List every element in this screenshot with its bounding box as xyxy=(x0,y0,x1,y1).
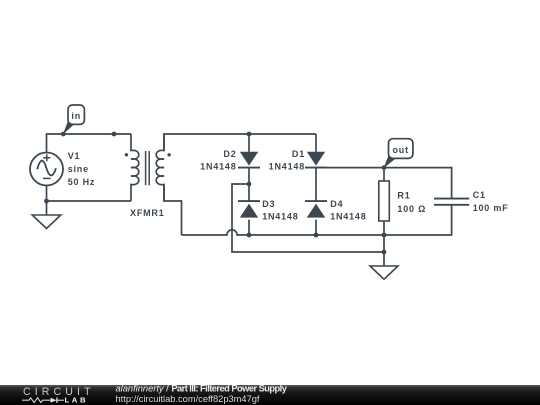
V1 sine glyph xyxy=(37,161,56,176)
wire output rail to C1 xyxy=(316,168,452,199)
wire XFMR1 secondary bottom jog xyxy=(164,185,182,236)
flag "in" pointer xyxy=(63,122,74,135)
diode D2 xyxy=(240,152,258,166)
transformer phase dot primary xyxy=(125,153,128,156)
wire D4 bottom lead xyxy=(315,220,317,235)
capacitor C1 plates xyxy=(434,199,469,205)
svg-text:D3: D3 xyxy=(262,199,275,209)
wire R1 bottom lead xyxy=(383,221,385,235)
label D3 xyxy=(262,199,298,222)
svg-text:XFMR1: XFMR1 xyxy=(130,208,165,218)
node dot: V1 bottom / ground xyxy=(44,199,49,204)
wire V1 bottom to ground xyxy=(46,186,48,216)
wire top rail XFMR1 secondary to D1 xyxy=(164,134,316,151)
voltage source V1 body xyxy=(30,153,63,186)
svg-text:sine: sine xyxy=(68,164,89,174)
svg-text:in: in xyxy=(71,111,81,121)
resistor R1 body xyxy=(379,181,390,221)
label D1 xyxy=(269,149,305,172)
transformer XFMR1 primary winding xyxy=(131,134,139,201)
diode D1 xyxy=(307,152,325,166)
svg-text:out: out xyxy=(392,145,408,155)
wire top-left from V1 to XFMR1 primary xyxy=(47,134,132,153)
wire D1 top lead xyxy=(315,134,317,152)
node dot: R1 bottom rail xyxy=(382,233,387,238)
label D2 xyxy=(200,149,236,172)
flag "out" box xyxy=(389,139,413,159)
node dot: in flag tap xyxy=(61,132,66,137)
node dot: D3 bottom rail xyxy=(247,233,252,238)
wire D2/D3 junction to lower return xyxy=(232,184,384,252)
svg-text:R1: R1 xyxy=(397,190,410,200)
transformer XFMR1 secondary winding xyxy=(156,134,164,201)
svg-text:http://circuitlab.com/ceff82p3: http://circuitlab.com/ceff82p3m47gf xyxy=(116,394,260,404)
svg-text:1N4148: 1N4148 xyxy=(262,212,298,222)
label D4 xyxy=(330,199,366,222)
logo diode symbol xyxy=(51,398,57,403)
svg-text:50 Hz: 50 Hz xyxy=(68,177,96,187)
svg-text:D4: D4 xyxy=(330,199,343,209)
svg-text:LAB: LAB xyxy=(65,395,89,404)
label C1 xyxy=(473,190,509,213)
label R1 xyxy=(397,190,426,214)
svg-text:D2: D2 xyxy=(223,149,236,159)
transformer phase dot secondary xyxy=(167,153,170,156)
svg-text:C1: C1 xyxy=(473,190,486,200)
logo resistor zigzag xyxy=(22,398,51,403)
label V1 xyxy=(68,151,96,187)
node dot: D2 top tap xyxy=(247,132,252,137)
wire bottom rail with hop over crossing xyxy=(182,205,452,235)
svg-text:1N4148: 1N4148 xyxy=(269,162,305,172)
node dot: top wire joint xyxy=(112,132,117,137)
svg-text:D1: D1 xyxy=(292,149,305,159)
node dot: out tap xyxy=(382,165,387,170)
node dot: D4 bottom rail xyxy=(314,233,319,238)
wire D3 bottom lead xyxy=(248,220,250,235)
svg-text:alanfinnerty / Part III: Filte: alanfinnerty / Part III: Filtered Power … xyxy=(116,385,288,394)
flag "out" pointer xyxy=(384,156,396,169)
svg-text:100 mF: 100 mF xyxy=(473,203,509,213)
svg-text:1N4148: 1N4148 xyxy=(330,212,366,222)
diode D4 xyxy=(307,204,325,218)
wire R1 bottom to right ground xyxy=(383,235,385,266)
svg-text:1N4148: 1N4148 xyxy=(200,162,236,172)
V1 minus sign xyxy=(43,177,51,179)
transformer core xyxy=(146,151,150,185)
wire D1 cathode to D4 cathode xyxy=(315,168,317,202)
V1 plus sign xyxy=(43,154,50,161)
wire bottom-left V1 to XFMR1 primary bottom xyxy=(47,200,132,202)
svg-text:100 Ω: 100 Ω xyxy=(397,204,426,214)
node dot: D2/D3 junction xyxy=(247,182,252,187)
ground (left) xyxy=(32,215,61,229)
wire D2 top lead xyxy=(248,134,250,152)
svg-text:V1: V1 xyxy=(68,151,81,161)
footer bar xyxy=(0,385,540,405)
node dot: lower return at ground xyxy=(382,250,387,255)
diode D3 xyxy=(240,204,258,218)
wire D2 cathode to D3 cathode xyxy=(248,168,250,202)
wire R1 top lead xyxy=(383,168,385,181)
flag "in" box xyxy=(68,105,84,124)
ground (right) xyxy=(370,266,398,279)
